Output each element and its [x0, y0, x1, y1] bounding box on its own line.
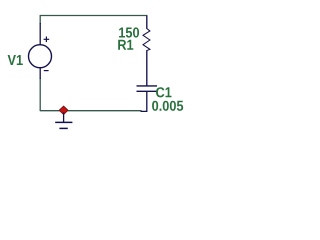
wire left vertical upper: [39, 15, 41, 24]
ground bar 2: [59, 127, 67, 129]
minus sign: [44, 70, 49, 72]
wire bottom horizontal: [40, 110, 142, 112]
voltage source V1 body: [29, 45, 52, 68]
voltage source V1 lead top: [39, 23, 41, 45]
wire top horizontal: [40, 15, 147, 17]
label V1: [8, 55, 23, 65]
label 0.005: [152, 101, 183, 111]
ground bar 1: [55, 121, 72, 123]
capacitor C1 top plate: [137, 85, 158, 87]
label C1: [156, 87, 172, 97]
voltage source V1 lead bottom: [39, 68, 41, 80]
resistor-capacitor lead: [146, 50, 148, 86]
capacitor C1 bottom plate: [137, 90, 158, 92]
resistor R1 zigzag: [143, 28, 150, 50]
label 150: [119, 27, 139, 37]
plus sign: [44, 37, 50, 43]
wire left vertical lower: [39, 78, 41, 111]
label R1: [118, 40, 133, 50]
wire bottom right segment: [141, 92, 147, 112]
ground stem: [63, 113, 65, 123]
junction dot red diamond: [59, 106, 68, 114]
wire right vertical top lead: [146, 16, 148, 29]
